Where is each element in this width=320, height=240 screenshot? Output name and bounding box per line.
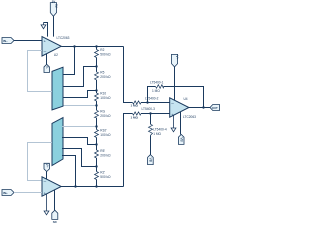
wire lower branch to U4 +in: [124, 114, 170, 187]
svg-text:–: –: [44, 179, 47, 184]
wire A: out to mux in1: [62, 47, 75, 75]
svg-text:U4: U4: [184, 97, 188, 101]
op-amp U1 LTC2063: [42, 177, 61, 196]
net flag below U2: [44, 54, 49, 73]
svg-text:V+: V+: [45, 164, 49, 168]
svg-text:SD: SD: [53, 220, 57, 224]
mux upper: [52, 67, 63, 110]
svg-text:VB: VB: [149, 158, 153, 162]
resistor R5: [95, 72, 99, 80]
svg-text:R5': R5': [100, 149, 105, 153]
wire B: chain tap to mux in2: [62, 67, 97, 87]
svg-text:200 kΩ: 200 kΩ: [100, 75, 111, 79]
net flag below LT5400-4: [148, 155, 154, 165]
node feedback/-in junction: [146, 101, 148, 103]
supply flag SD bottom: [52, 190, 58, 224]
wire U1 output: [61, 186, 123, 188]
svg-text:200 kΩ: 200 kΩ: [100, 114, 111, 118]
svg-text:RG: RG: [100, 109, 105, 113]
wire A': mux to out wire: [62, 156, 76, 187]
resistor LT5400-2: [133, 101, 142, 104]
supply flag 5V top: [50, 0, 58, 16]
resistor R2: [95, 50, 99, 58]
svg-text:1 MΩ: 1 MΩ: [131, 115, 139, 119]
svg-text:LTC2063: LTC2063: [57, 36, 70, 40]
svg-text:IN+: IN+: [3, 191, 8, 195]
op-amp U4 LTC2063: [170, 98, 189, 117]
svg-text:–: –: [171, 101, 174, 106]
svg-text:V+: V+: [175, 55, 179, 59]
resistor LT5400-4 (vertical): [150, 114, 152, 155]
net flag above U1: [44, 163, 49, 179]
wire D' (light): mux to chain: [62, 126, 97, 128]
resistor R10': [95, 130, 99, 138]
port IN+: [2, 190, 14, 196]
ground flag below U1: [44, 194, 49, 215]
svg-text:500 kΩ: 500 kΩ: [100, 53, 111, 57]
wire B': mux to chain: [62, 149, 97, 167]
svg-text:IN–: IN–: [3, 39, 8, 43]
node chain bottom: [95, 185, 97, 187]
mux lower: [52, 118, 63, 166]
wire D (light): mux in4 to chain tap: [62, 105, 97, 107]
svg-text:VB: VB: [179, 137, 183, 141]
node A': [74, 185, 76, 187]
wire feedback loop U2: [28, 51, 53, 92]
resistor RG: [95, 110, 99, 118]
resistor R10: [95, 93, 99, 101]
resistor R2': [95, 172, 99, 180]
svg-text:1 MΩ: 1 MΩ: [152, 89, 160, 93]
svg-text:OUT: OUT: [212, 106, 218, 110]
node D: [95, 104, 97, 106]
wire supply to U4 V+: [174, 67, 176, 101]
svg-text:500 kΩ: 500 kΩ: [100, 175, 111, 179]
svg-text:U2: U2: [54, 53, 58, 57]
node dot out U2 / wire A tap: [73, 45, 75, 47]
wire IN- to U2 +in: [14, 40, 42, 42]
svg-text:200 kΩ: 200 kΩ: [100, 153, 111, 157]
svg-text:LTC2063: LTC2063: [183, 115, 196, 119]
svg-text:–: –: [44, 49, 47, 54]
wire supply to U2 V+: [53, 16, 55, 36]
svg-text:1 MΩ: 1 MΩ: [131, 104, 139, 108]
node +in / LT5400-4 junction: [149, 112, 151, 114]
svg-text:100 kΩ: 100 kΩ: [100, 133, 111, 137]
net flag below U4: [178, 112, 184, 145]
svg-text:LT5400-1: LT5400-1: [150, 80, 164, 84]
svg-text:LT5400-4: LT5400-4: [153, 127, 167, 131]
svg-text:R10: R10: [100, 92, 106, 96]
ground flag below U4: [171, 116, 176, 132]
node B': [95, 165, 97, 167]
svg-text:R2': R2': [100, 170, 105, 174]
resistor chain wire: [96, 47, 98, 187]
svg-text:V-: V-: [45, 66, 49, 69]
node D': [95, 125, 97, 127]
resistor LT5400-1: [156, 85, 164, 89]
node C: [95, 89, 97, 91]
port IN-: [2, 38, 14, 44]
wire U2 output: [61, 46, 123, 48]
node B: [95, 65, 97, 67]
wire C: mux in3 to chain tap: [62, 91, 97, 98]
wire U4 output: [189, 107, 210, 109]
svg-text:1 MΩ: 1 MΩ: [153, 132, 161, 136]
wire feedback U4: [148, 87, 204, 108]
wire C': mux to chain: [62, 138, 97, 145]
node C': [95, 143, 97, 145]
port OUT: [210, 105, 220, 111]
op-amp U2 LTC2063: [42, 37, 61, 56]
wire feedback loop U1: [28, 143, 53, 181]
wire upper branch to U4 -in: [124, 47, 170, 103]
wire ground flag to U2 top pin: [44, 23, 48, 37]
svg-text:100 kΩ: 100 kΩ: [100, 96, 111, 100]
svg-text:LT5400-3: LT5400-3: [142, 107, 156, 111]
resistor R5': [95, 150, 99, 158]
wire IN+ to U1 (light): [14, 192, 42, 194]
node dot chain top: [95, 45, 97, 47]
svg-text:R10': R10': [100, 128, 107, 132]
supply flag above U4: [172, 54, 180, 67]
svg-text:R2: R2: [100, 48, 104, 52]
resistor LT5400-3: [133, 112, 142, 115]
node out: [202, 106, 204, 108]
svg-text:R5: R5: [100, 71, 104, 75]
ground flag top-left: [41, 23, 46, 29]
